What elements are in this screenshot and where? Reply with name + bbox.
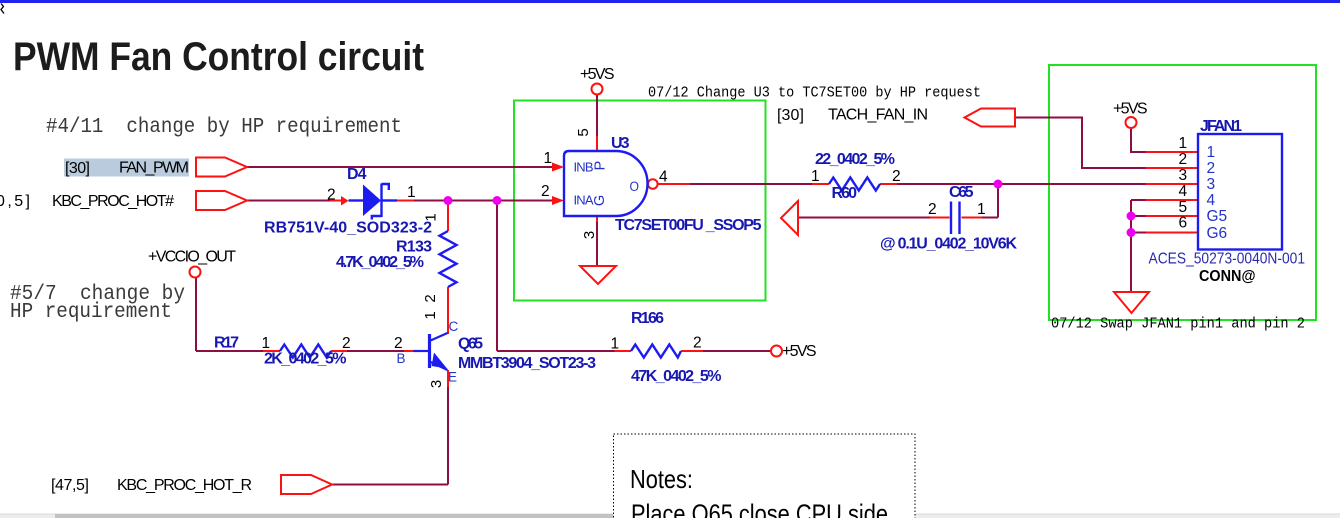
svg-text:R166: R166 <box>631 310 664 327</box>
svg-text:TC7SET00FU _SSOP5: TC7SET00FU _SSOP5 <box>615 217 762 234</box>
svg-text:G5: G5 <box>1207 208 1228 225</box>
svg-text:4: 4 <box>1179 183 1188 200</box>
svg-text:+5VS: +5VS <box>580 66 615 83</box>
svg-text:R60: R60 <box>832 185 858 202</box>
svg-text:@ 0.1U_0402_10V6K: @ 0.1U_0402_10V6K <box>880 236 1017 253</box>
svg-text:1: 1 <box>1207 144 1216 161</box>
svg-text:[30]: [30] <box>777 107 804 124</box>
svg-text:2: 2 <box>693 335 702 352</box>
svg-text:KBC_PROC_HOT_R: KBC_PROC_HOT_R <box>117 477 252 494</box>
svg-text:3: 3 <box>1207 176 1216 193</box>
svg-text:Place Q65 close CPU side: Place Q65 close CPU side <box>631 499 888 518</box>
svg-text:2: 2 <box>1207 160 1216 177</box>
svg-text:2: 2 <box>541 183 550 200</box>
svg-text:CONN@: CONN@ <box>1199 268 1256 285</box>
svg-text:B: B <box>397 351 406 366</box>
svg-text:5: 5 <box>1179 199 1188 216</box>
svg-text:1: 1 <box>1179 135 1188 152</box>
svg-text:1: 1 <box>611 336 620 353</box>
svg-text:O: O <box>630 179 640 194</box>
svg-text:4.7K_0402_5%: 4.7K_0402_5% <box>336 254 424 271</box>
svg-text:JFAN1: JFAN1 <box>1200 118 1242 135</box>
svg-text:+5VS: +5VS <box>1113 101 1148 118</box>
svg-text:INA: INA <box>574 193 594 208</box>
svg-text:07/12 Change U3 to TC7SET00 by: 07/12 Change U3 to TC7SET00 by HP reques… <box>648 85 981 102</box>
svg-text:4: 4 <box>659 169 668 186</box>
svg-text:3: 3 <box>581 231 598 239</box>
svg-text:1: 1 <box>262 335 271 352</box>
svg-text:4: 4 <box>1207 192 1216 209</box>
svg-text:1: 1 <box>544 150 553 167</box>
svg-text:E: E <box>448 370 457 385</box>
svg-text:R17: R17 <box>214 335 239 352</box>
svg-text:5: 5 <box>575 128 592 136</box>
svg-text:G: G <box>592 195 608 206</box>
svg-text:3: 3 <box>1179 167 1188 184</box>
svg-text:U3: U3 <box>611 135 630 152</box>
svg-text:P: P <box>592 161 608 171</box>
svg-text:2K_0402_5%: 2K_0402_5% <box>264 351 347 368</box>
svg-text:HP requirement: HP requirement <box>10 301 172 324</box>
svg-text:2: 2 <box>422 294 439 302</box>
svg-text:+5VS: +5VS <box>782 343 817 360</box>
svg-text:TACH_FAN_IN: TACH_FAN_IN <box>828 107 928 124</box>
svg-text:PWM Fan Control circuit: PWM Fan Control circuit <box>13 35 424 79</box>
svg-text:1: 1 <box>977 201 986 218</box>
svg-text:1: 1 <box>422 213 439 221</box>
svg-text:47K_0402_5%: 47K_0402_5% <box>631 368 722 385</box>
svg-text:D4: D4 <box>347 166 367 183</box>
svg-text:1: 1 <box>407 184 416 201</box>
svg-text:3: 3 <box>428 380 445 388</box>
svg-text:2: 2 <box>892 168 901 185</box>
svg-text:Q65: Q65 <box>458 336 483 353</box>
svg-text:0,5]: 0,5] <box>0 193 30 210</box>
svg-text:[47,5]: [47,5] <box>51 477 89 494</box>
svg-text:C: C <box>449 319 459 334</box>
svg-text:MMBT3904_SOT23-3: MMBT3904_SOT23-3 <box>458 355 596 372</box>
svg-text:RB751V-40_SOD323-2: RB751V-40_SOD323-2 <box>264 220 432 237</box>
svg-text:1: 1 <box>811 168 820 185</box>
svg-text:KBC_PROC_HOT#: KBC_PROC_HOT# <box>52 193 174 210</box>
svg-text:ACES_50273-0040N-001: ACES_50273-0040N-001 <box>1149 251 1306 268</box>
svg-text:2: 2 <box>327 187 336 204</box>
svg-text:2: 2 <box>342 335 351 352</box>
svg-text:#4/11 change by HP requiremen: #4/11 change by HP requirement <box>46 116 402 139</box>
svg-text:2: 2 <box>928 201 937 218</box>
svg-text:1: 1 <box>422 311 439 319</box>
svg-text:INB: INB <box>574 160 594 175</box>
svg-text:6: 6 <box>1179 215 1188 232</box>
svg-text:FAN_PWM: FAN_PWM <box>119 160 189 177</box>
svg-text:C65: C65 <box>949 184 974 201</box>
svg-text:R133: R133 <box>396 239 432 256</box>
svg-text:G6: G6 <box>1207 225 1228 242</box>
svg-text:+VCCIO_OUT: +VCCIO_OUT <box>148 249 236 266</box>
svg-text:Notes:: Notes: <box>630 464 693 494</box>
svg-text:2: 2 <box>1179 151 1188 168</box>
svg-text:22_0402_5%: 22_0402_5% <box>815 151 895 168</box>
svg-text:[30]: [30] <box>65 160 90 177</box>
svg-text:2: 2 <box>394 335 403 352</box>
svg-text:07/12 Swap JFAN1 pin1 and pin: 07/12 Swap JFAN1 pin1 and pin 2 <box>1051 316 1305 333</box>
